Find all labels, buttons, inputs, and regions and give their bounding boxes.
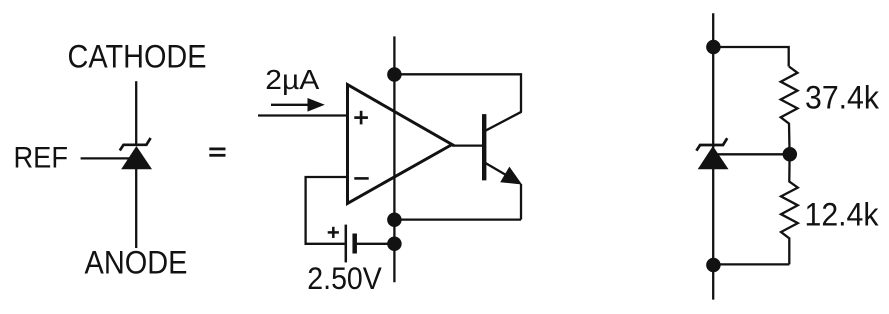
svg-text:REF: REF	[14, 142, 69, 175]
svg-text:ANODE: ANODE	[85, 245, 188, 281]
svg-text:CATHODE: CATHODE	[68, 38, 207, 74]
svg-text:12.4k: 12.4k	[805, 196, 880, 232]
svg-text:37.4k: 37.4k	[805, 80, 880, 116]
svg-text:2µA: 2µA	[265, 64, 319, 95]
svg-text:2.50V: 2.50V	[307, 260, 382, 296]
